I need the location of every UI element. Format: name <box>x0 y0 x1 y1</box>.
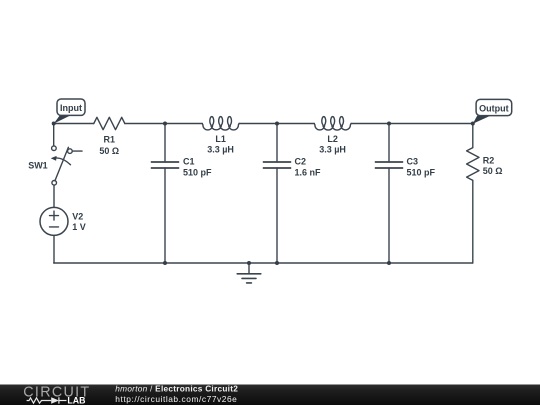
svg-text:1 V: 1 V <box>72 222 86 232</box>
svg-text:Output: Output <box>479 104 509 114</box>
svg-text:3.3 µH: 3.3 µH <box>207 145 234 155</box>
svg-text:C1: C1 <box>183 157 195 167</box>
svg-text:C3: C3 <box>407 157 419 167</box>
svg-text:L2: L2 <box>327 134 338 144</box>
svg-text:hmorton / Electronics Circuit2: hmorton / Electronics Circuit2 <box>115 383 238 393</box>
svg-text:V2: V2 <box>72 211 83 221</box>
svg-text:50 Ω: 50 Ω <box>99 146 119 156</box>
svg-text:3.3 µH: 3.3 µH <box>319 145 346 155</box>
svg-text:R1: R1 <box>104 135 116 145</box>
svg-text:C2: C2 <box>295 157 307 167</box>
svg-text:R2: R2 <box>483 156 495 166</box>
svg-text:510 pF: 510 pF <box>183 167 212 177</box>
svg-text:50 Ω: 50 Ω <box>483 166 503 176</box>
svg-text:510 pF: 510 pF <box>407 167 436 177</box>
svg-text:1.6 nF: 1.6 nF <box>295 167 322 177</box>
svg-text:SW1: SW1 <box>28 161 48 171</box>
svg-text:L1: L1 <box>215 134 226 144</box>
svg-text:Input: Input <box>60 103 82 113</box>
svg-text:LAB: LAB <box>67 395 85 405</box>
svg-text:http://circuitlab.com/c77v26e: http://circuitlab.com/c77v26e <box>115 394 237 404</box>
